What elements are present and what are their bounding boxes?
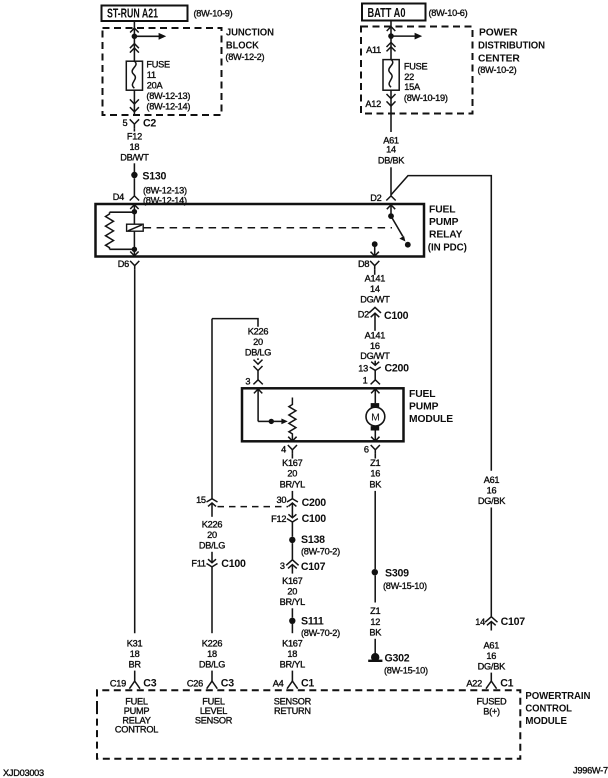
pin D6 fork below relay bbox=[130, 261, 139, 270]
svg-text:(8W-10-9): (8W-10-9) bbox=[194, 9, 233, 19]
label JUNCTION BLOCK (8W-12-2) bbox=[225, 28, 274, 62]
svg-text:(8W-12-13): (8W-12-13) bbox=[146, 91, 190, 101]
wire K226 branch (horizontal run to pin 3) bbox=[212, 319, 258, 327]
arrow pin D8 exit bbox=[371, 252, 379, 256]
svg-text:RETURN: RETURN bbox=[274, 706, 311, 716]
svg-text:MODULE: MODULE bbox=[409, 414, 453, 425]
arrow pin D2 inside relay bbox=[387, 205, 395, 216]
svg-text:XJD03003: XJD03003 bbox=[3, 768, 44, 778]
wire to relay pin D2 bbox=[390, 167, 392, 196]
label POWERTRAIN CONTROL MODULE bbox=[525, 691, 590, 727]
value label K226 18 DB/LG bbox=[199, 639, 225, 670]
svg-text:30: 30 bbox=[276, 495, 286, 505]
wire S130 to relay pin D4 bbox=[133, 178, 135, 196]
svg-text:(8W-70-2): (8W-70-2) bbox=[301, 546, 340, 556]
value label A141 14 DG/WT bbox=[360, 274, 390, 305]
svg-text:A12: A12 bbox=[365, 99, 381, 109]
wire to fuse 22 bbox=[390, 36, 392, 60]
svg-text:A141: A141 bbox=[365, 274, 386, 284]
connector C200 pin 15 (chevrons) bbox=[207, 499, 218, 517]
connector chevrons into C2 bbox=[130, 99, 139, 111]
relay switch blade bbox=[391, 216, 405, 241]
svg-text:DB/LG: DB/LG bbox=[245, 348, 271, 358]
net label FUSED B(+) bbox=[477, 697, 508, 717]
svg-text:Z1: Z1 bbox=[370, 606, 380, 616]
svg-text:S309: S309 bbox=[385, 567, 409, 579]
label FUEL PUMP RELAY (IN PDC) bbox=[428, 204, 467, 253]
junction node with feed arrow bbox=[388, 33, 422, 40]
svg-text:4: 4 bbox=[281, 445, 286, 455]
pin 3 fork into module bbox=[253, 380, 262, 385]
svg-text:DG/WT: DG/WT bbox=[360, 295, 390, 305]
svg-text:CONTROL: CONTROL bbox=[115, 725, 158, 735]
svg-text:(IN PDC): (IN PDC) bbox=[428, 242, 467, 253]
connector chevrons above fuse 22 bbox=[387, 42, 396, 51]
svg-text:A22: A22 bbox=[466, 678, 482, 688]
svg-text:CENTER: CENTER bbox=[478, 53, 520, 64]
svg-text:C107: C107 bbox=[301, 561, 326, 573]
svg-text:16: 16 bbox=[370, 469, 380, 479]
wire fuse 22 to PDC edge bbox=[390, 90, 392, 113]
wire to PCM pin C26 bbox=[211, 671, 213, 681]
svg-text:(8W-10-2): (8W-10-2) bbox=[478, 65, 517, 75]
relay coil (winding) bbox=[106, 212, 114, 249]
svg-text:11: 11 bbox=[147, 70, 156, 80]
svg-text:16: 16 bbox=[370, 341, 380, 351]
svg-text:D2: D2 bbox=[358, 310, 369, 320]
wire to PCM pin C19 bbox=[134, 671, 136, 681]
svg-text:(8W-10-19): (8W-10-19) bbox=[404, 93, 448, 103]
pin D4 fork into relay bbox=[130, 196, 139, 201]
svg-text:PUMP: PUMP bbox=[429, 217, 459, 228]
connector chevrons above fuse 11 bbox=[130, 44, 139, 53]
svg-text:K226: K226 bbox=[202, 520, 223, 530]
svg-text:DG/BK: DG/BK bbox=[478, 662, 506, 672]
value label K226 20 DB/LG bbox=[199, 520, 225, 551]
connector chevrons at pin 3 bbox=[254, 358, 263, 379]
svg-text:FUSE: FUSE bbox=[404, 61, 428, 71]
svg-text:20: 20 bbox=[287, 469, 297, 479]
arrow pin 6 exit bbox=[371, 437, 379, 441]
wire to PCM pin A4 bbox=[291, 671, 293, 681]
svg-text:BK: BK bbox=[369, 480, 382, 490]
svg-text:SENSOR: SENSOR bbox=[195, 715, 233, 725]
svg-text:DG/BK: DG/BK bbox=[478, 496, 506, 506]
svg-text:14: 14 bbox=[386, 145, 396, 155]
pin 4 fork below module bbox=[288, 445, 297, 454]
svg-text:C2: C2 bbox=[143, 117, 156, 129]
svg-text:C100: C100 bbox=[302, 513, 327, 525]
wire coil bottom to pin D6 bbox=[133, 249, 135, 255]
svg-text:FUSE: FUSE bbox=[146, 60, 170, 70]
svg-text:(8W-12-13): (8W-12-13) bbox=[143, 185, 187, 195]
value label K167 20 BR/YL bbox=[280, 458, 305, 490]
pin 1 fork into module bbox=[371, 380, 380, 385]
svg-text:C1: C1 bbox=[500, 677, 513, 689]
mechanical link (dashed) to contact bbox=[144, 227, 392, 229]
value label A61 14 DB/BK bbox=[378, 136, 405, 166]
svg-text:18: 18 bbox=[207, 649, 217, 659]
wire BATT A0 to PDC bbox=[390, 21, 392, 37]
wire K167 20 BR/YL bbox=[291, 454, 293, 459]
svg-text:1: 1 bbox=[363, 376, 368, 386]
value label K167 20 BR/YL bbox=[280, 576, 305, 607]
node BATT A0 (feed box) bbox=[362, 4, 426, 21]
svg-text:20: 20 bbox=[287, 587, 297, 597]
wire K226 trunk down to connector C200 pin 15 bbox=[211, 319, 213, 499]
wire motor to pin 6 bbox=[374, 431, 376, 441]
wire right trunk to connector C107 bbox=[490, 508, 492, 617]
wire fuse 11 to connector C2 bbox=[133, 90, 135, 114]
connector C100 pin F12 (chevrons) bbox=[287, 514, 298, 537]
relay armature symbol bbox=[127, 224, 144, 231]
svg-text:C200: C200 bbox=[302, 497, 327, 509]
wire to splice S130 bbox=[133, 163, 135, 172]
svg-text:15A: 15A bbox=[404, 82, 421, 92]
svg-text:12: 12 bbox=[370, 617, 380, 627]
splice S138 bbox=[289, 534, 340, 556]
svg-text:ST-RUN A21: ST-RUN A21 bbox=[107, 7, 158, 21]
wire to relay coil bbox=[110, 211, 135, 213]
wire to PCM pin A22 bbox=[490, 673, 492, 681]
net label FUEL PUMP RELAY CONTROL bbox=[115, 697, 158, 735]
wire pin 3 to wiper bbox=[258, 420, 271, 422]
svg-text:22: 22 bbox=[404, 72, 414, 82]
svg-text:MODULE: MODULE bbox=[525, 716, 567, 727]
svg-text:A141: A141 bbox=[365, 330, 386, 340]
value label Z1 12 BK bbox=[369, 606, 382, 637]
arrow pin D6 exit bbox=[130, 252, 138, 256]
svg-text:C1: C1 bbox=[301, 677, 314, 689]
svg-text:BATT A0: BATT A0 bbox=[368, 6, 406, 20]
svg-text:(8W-15-10): (8W-15-10) bbox=[384, 666, 428, 676]
svg-text:FUEL: FUEL bbox=[409, 389, 435, 400]
pin A22 fork into PCM (connector C1) bbox=[486, 681, 497, 689]
svg-text:DB/LG: DB/LG bbox=[199, 660, 225, 670]
value label K31 18 BR bbox=[127, 639, 143, 670]
value label FUSE 22 15A (8W-10-19) bbox=[404, 61, 448, 103]
svg-text:20: 20 bbox=[253, 337, 263, 347]
net label FUEL LEVEL SENSOR bbox=[195, 697, 233, 726]
arrow pin 1 inside module bbox=[371, 389, 379, 403]
connector C107 pin 3 (chevrons) bbox=[286, 560, 298, 574]
svg-text:BK: BK bbox=[369, 627, 382, 637]
svg-text:15: 15 bbox=[196, 495, 206, 505]
svg-text:F11: F11 bbox=[191, 559, 206, 569]
svg-text:S138: S138 bbox=[301, 534, 325, 546]
svg-text:16: 16 bbox=[486, 651, 496, 661]
resistor fuel level sender bbox=[289, 398, 296, 441]
svg-text:3: 3 bbox=[245, 376, 250, 386]
svg-text:FUEL: FUEL bbox=[429, 204, 455, 215]
svg-text:G302: G302 bbox=[385, 653, 410, 665]
svg-text:B(+): B(+) bbox=[483, 706, 500, 716]
svg-text:C200: C200 bbox=[385, 363, 410, 375]
arrow into junction block (chevron) bbox=[130, 28, 139, 32]
svg-text:F12: F12 bbox=[127, 132, 142, 142]
svg-text:Z1: Z1 bbox=[370, 458, 380, 468]
value label F12 18 DB/WT bbox=[120, 132, 149, 163]
svg-text:M: M bbox=[371, 411, 379, 423]
svg-text:K167: K167 bbox=[282, 576, 303, 586]
wire A141 14 DG/WT bbox=[374, 270, 376, 275]
wire to splice S309 bbox=[374, 491, 376, 569]
pin D2 fork into relay bbox=[386, 196, 395, 201]
connector C200 mating line (dashed) bbox=[218, 506, 289, 508]
svg-text:C100: C100 bbox=[384, 310, 409, 322]
arrow into PDC (chevron) bbox=[387, 27, 396, 31]
svg-text:A11: A11 bbox=[366, 45, 381, 55]
wire ST-RUN A21 to junction block bbox=[133, 21, 135, 36]
label FUEL PUMP MODULE bbox=[409, 389, 453, 425]
arrow pin D4 inside relay bbox=[130, 205, 138, 212]
pin C19 fork into PCM (connector C3) bbox=[129, 681, 140, 689]
svg-text:18: 18 bbox=[130, 142, 140, 152]
connector C200 pin 30 (chevrons) bbox=[287, 499, 298, 518]
svg-text:A61: A61 bbox=[484, 475, 500, 485]
svg-text:C100: C100 bbox=[221, 558, 246, 570]
node relay common contact bbox=[388, 213, 394, 219]
svg-text:18: 18 bbox=[130, 649, 140, 659]
net label SENSOR RETURN bbox=[274, 697, 312, 716]
wire to connector C200 pin 30 bbox=[291, 491, 293, 499]
svg-text:13: 13 bbox=[358, 364, 368, 374]
fuel pump module (box) bbox=[242, 388, 404, 441]
svg-text:C3: C3 bbox=[221, 677, 234, 689]
value label FUSE 11 20A (8W-12-13) (8W-12-14) bbox=[146, 60, 190, 112]
wire K31 18 BR (D6 trunk down) bbox=[134, 270, 136, 633]
svg-text:D8: D8 bbox=[358, 259, 369, 269]
svg-text:A4: A4 bbox=[273, 678, 284, 688]
value label K226 20 DB/LG bbox=[245, 327, 271, 358]
svg-text:C3: C3 bbox=[143, 677, 156, 689]
pin A4 fork into PCM (connector C1) bbox=[287, 681, 298, 689]
connector C100 pin F11 (chevrons) bbox=[207, 559, 218, 633]
pin D8 fork below relay bbox=[370, 261, 379, 270]
wire to splice S111 bbox=[291, 608, 293, 617]
svg-text:K31: K31 bbox=[127, 639, 143, 649]
motor M1 fuel pump bbox=[366, 403, 385, 430]
pin C26 fork into PCM (connector C3) bbox=[207, 681, 218, 689]
arrow pin 3 inside module bbox=[254, 389, 262, 421]
svg-text:K167: K167 bbox=[282, 639, 303, 649]
svg-text:F12: F12 bbox=[271, 514, 286, 524]
svg-text:5: 5 bbox=[123, 118, 128, 128]
node relay coil bottom junction bbox=[132, 247, 137, 252]
svg-text:POWERTRAIN: POWERTRAIN bbox=[525, 691, 590, 702]
ground G302 bbox=[368, 653, 428, 676]
wire A61 16 DG/BK labels (right trunk) bbox=[478, 475, 506, 506]
svg-text:BR/YL: BR/YL bbox=[280, 597, 305, 607]
splice S309 bbox=[372, 567, 427, 590]
wire coil bottom bbox=[110, 248, 135, 250]
node relay coil top junction bbox=[132, 209, 137, 214]
svg-text:S111: S111 bbox=[301, 616, 324, 628]
fuse F22 (Fuse 22 15A) bbox=[383, 60, 399, 91]
wire to connector C100 pin F11 bbox=[211, 552, 213, 563]
svg-text:14: 14 bbox=[370, 284, 380, 294]
svg-text:(8W-12-2): (8W-12-2) bbox=[225, 52, 264, 62]
svg-text:D6: D6 bbox=[118, 259, 129, 269]
svg-text:DB/BK: DB/BK bbox=[378, 156, 405, 166]
wire coil junctions vertical bbox=[133, 212, 135, 250]
value label Z1 16 BK bbox=[369, 458, 382, 490]
svg-text:3: 3 bbox=[280, 561, 285, 571]
wire to ground G302 bbox=[374, 639, 376, 654]
node wiper junction bbox=[269, 419, 274, 424]
value label K167 18 BR/YL bbox=[280, 639, 305, 670]
svg-text:C19: C19 bbox=[110, 678, 126, 688]
svg-text:DISTRIBUTION: DISTRIBUTION bbox=[478, 40, 545, 51]
node relay output contact (to D8) bbox=[372, 241, 378, 255]
wire F12 18 DB/WT bbox=[133, 128, 135, 131]
svg-text:6: 6 bbox=[364, 445, 369, 455]
splice S130 bbox=[131, 171, 187, 206]
wire branch to A61 16 DG/BK (diagonal and right trunk) bbox=[391, 176, 491, 471]
svg-text:(8W-12-14): (8W-12-14) bbox=[146, 102, 190, 112]
wire S138 to C107 bbox=[291, 543, 293, 560]
node relay NO contact bbox=[405, 242, 411, 248]
svg-text:C107: C107 bbox=[501, 616, 526, 628]
connector C200 pin 13 to 1 (chevrons) bbox=[370, 361, 381, 380]
wire A61 14 DB/BK bbox=[390, 114, 392, 133]
svg-text:K226: K226 bbox=[202, 639, 223, 649]
svg-text:(8W-70-2): (8W-70-2) bbox=[301, 628, 340, 638]
connector chevrons at pin A12 bbox=[387, 94, 396, 106]
junction node with feed arrow bbox=[132, 33, 167, 40]
wire Z1 16 BK bbox=[374, 454, 376, 459]
svg-text:20: 20 bbox=[207, 530, 217, 540]
connector C2 pin 5 (fork) bbox=[130, 119, 139, 128]
svg-text:C26: C26 bbox=[187, 678, 203, 688]
svg-text:K226: K226 bbox=[248, 327, 269, 337]
svg-text:16: 16 bbox=[487, 486, 497, 496]
svg-text:20A: 20A bbox=[147, 81, 164, 91]
arrow pin 4 exit bbox=[288, 437, 296, 441]
splice S111 bbox=[289, 616, 340, 639]
svg-text:(8W-15-10): (8W-15-10) bbox=[383, 581, 427, 591]
svg-text:DB/WT: DB/WT bbox=[120, 153, 149, 163]
powertrain control module (dashed enclosure) bbox=[97, 690, 520, 759]
junction block (dashed enclosure) bbox=[103, 28, 222, 115]
svg-text:18: 18 bbox=[287, 649, 297, 659]
relay K1 fuel pump relay (box) bbox=[96, 204, 425, 257]
value label A141 16 DG/WT bbox=[360, 330, 390, 361]
svg-text:D4: D4 bbox=[113, 192, 124, 202]
svg-text:J996W-7: J996W-7 bbox=[573, 766, 608, 776]
value label A61 16 DG/BK bbox=[478, 641, 506, 672]
svg-text:POWER: POWER bbox=[479, 28, 518, 39]
fuse F11 (Fuse 11 20A) bbox=[126, 61, 142, 90]
pin 6 fork below module bbox=[371, 445, 380, 454]
svg-text:CONTROL: CONTROL bbox=[525, 703, 572, 714]
svg-text:K167: K167 bbox=[282, 458, 303, 468]
wiper arrow to sender resistor bbox=[271, 419, 288, 425]
svg-text:BR/YL: BR/YL bbox=[280, 660, 305, 670]
svg-text:PUMP: PUMP bbox=[409, 402, 439, 413]
connector C107 pin 14 (chevrons) bbox=[485, 617, 497, 631]
svg-text:S130: S130 bbox=[142, 171, 166, 183]
svg-text:FUSED: FUSED bbox=[477, 697, 508, 707]
svg-text:A61: A61 bbox=[483, 641, 499, 651]
wire K167 18 BR/YL bbox=[291, 624, 293, 633]
svg-text:BR/YL: BR/YL bbox=[280, 480, 305, 490]
svg-text:BR: BR bbox=[128, 660, 141, 670]
wire to fuse F11 bbox=[133, 36, 135, 61]
label POWER DISTRIBUTION CENTER (8W-10-2) bbox=[478, 28, 546, 75]
svg-text:(8W-10-6): (8W-10-6) bbox=[429, 8, 468, 18]
svg-text:D2: D2 bbox=[370, 193, 381, 203]
connector C100 pin D2 (chevrons) bbox=[369, 307, 381, 322]
wire A141 16 DG/WT bbox=[374, 322, 376, 331]
svg-text:DG/WT: DG/WT bbox=[360, 351, 390, 361]
svg-text:14: 14 bbox=[475, 617, 485, 627]
svg-text:JUNCTION: JUNCTION bbox=[226, 28, 274, 39]
node ST-RUN A21 (feed box) bbox=[102, 6, 188, 22]
svg-text:BLOCK: BLOCK bbox=[226, 41, 260, 52]
svg-text:RELAY: RELAY bbox=[429, 229, 463, 240]
power distribution center (dashed enclosure) bbox=[361, 27, 473, 114]
wire Z1 12 BK bbox=[374, 575, 376, 602]
svg-text:DB/LG: DB/LG bbox=[199, 541, 225, 551]
